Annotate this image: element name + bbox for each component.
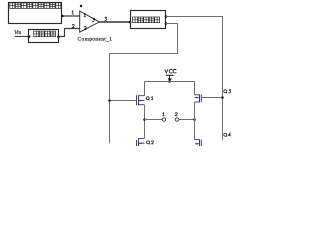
pin label 1 (72, 11, 74, 14)
label 2 (175, 113, 177, 116)
junction dot splitter output B (165, 22, 168, 25)
junction dot splitter output A (165, 15, 168, 18)
junction dot generator output (61, 15, 64, 18)
op-amp Component_1 (80, 11, 100, 32)
label Q3 (224, 90, 227, 93)
junction dot at splitter input (129, 21, 132, 24)
junction dot right mid node (193, 118, 196, 121)
svg-text:Component_1: Component_1 (78, 37, 113, 43)
block: phase splitter box (131, 11, 166, 29)
svg-text:Vin: Vin (14, 30, 21, 36)
pin label 2 (72, 24, 74, 27)
transistor Q4 (195, 140, 202, 146)
terminal circle 2 (175, 118, 178, 121)
wire: left mid to terminal 1 (145, 119, 163, 121)
label text inside generator box (10, 3, 61, 9)
wire: right leg source vertical (194, 102, 196, 140)
label 1 (162, 113, 164, 116)
label Q1 (146, 97, 149, 100)
wire: generator to comparator input 1 (61, 15, 79, 17)
label Q2 (147, 141, 150, 144)
transistor Q2 (137, 138, 145, 146)
block: preamp box (29, 30, 59, 43)
label text inside preamp box (34, 31, 56, 37)
label Q4 (224, 133, 227, 136)
power dot above comparator (80, 5, 82, 7)
wire: left leg drain vertical (144, 82, 146, 96)
junction dot Vin at preamp (28, 35, 31, 38)
wire: preamp to comparator input 2 (58, 29, 79, 37)
terminal circle 1 (162, 118, 165, 121)
wire: splitter output B to left gate bus (110, 24, 178, 144)
wire: Q1 gate from left bus (110, 100, 137, 102)
junction dot left bus Q1 gate (108, 99, 111, 102)
pin label 3 (105, 17, 107, 20)
wire: terminal 2 to right mid (179, 119, 195, 121)
VCC power symbol (166, 75, 174, 82)
wire: VCC top rail (145, 81, 195, 83)
wire: right leg drain vertical (194, 82, 196, 95)
wire: Vin input (15, 36, 29, 38)
transistor Q1 (137, 95, 145, 105)
junction dot left mid node (143, 118, 146, 121)
label text inside splitter box (133, 17, 160, 23)
junction dot right bus Q3 gate (221, 96, 224, 99)
junction dot preamp output (57, 36, 60, 39)
wire: left leg source vertical (144, 105, 146, 139)
VCC label (165, 69, 177, 73)
transistor Q3 (195, 94, 202, 102)
junction dot VCC on rail (168, 80, 171, 83)
wire: Q3 gate to right bus (201, 97, 222, 99)
block: triangle wave generator box (9, 3, 62, 24)
wire: comparator output (99, 21, 130, 23)
wire: splitter output A to right gate bus (166, 17, 223, 141)
